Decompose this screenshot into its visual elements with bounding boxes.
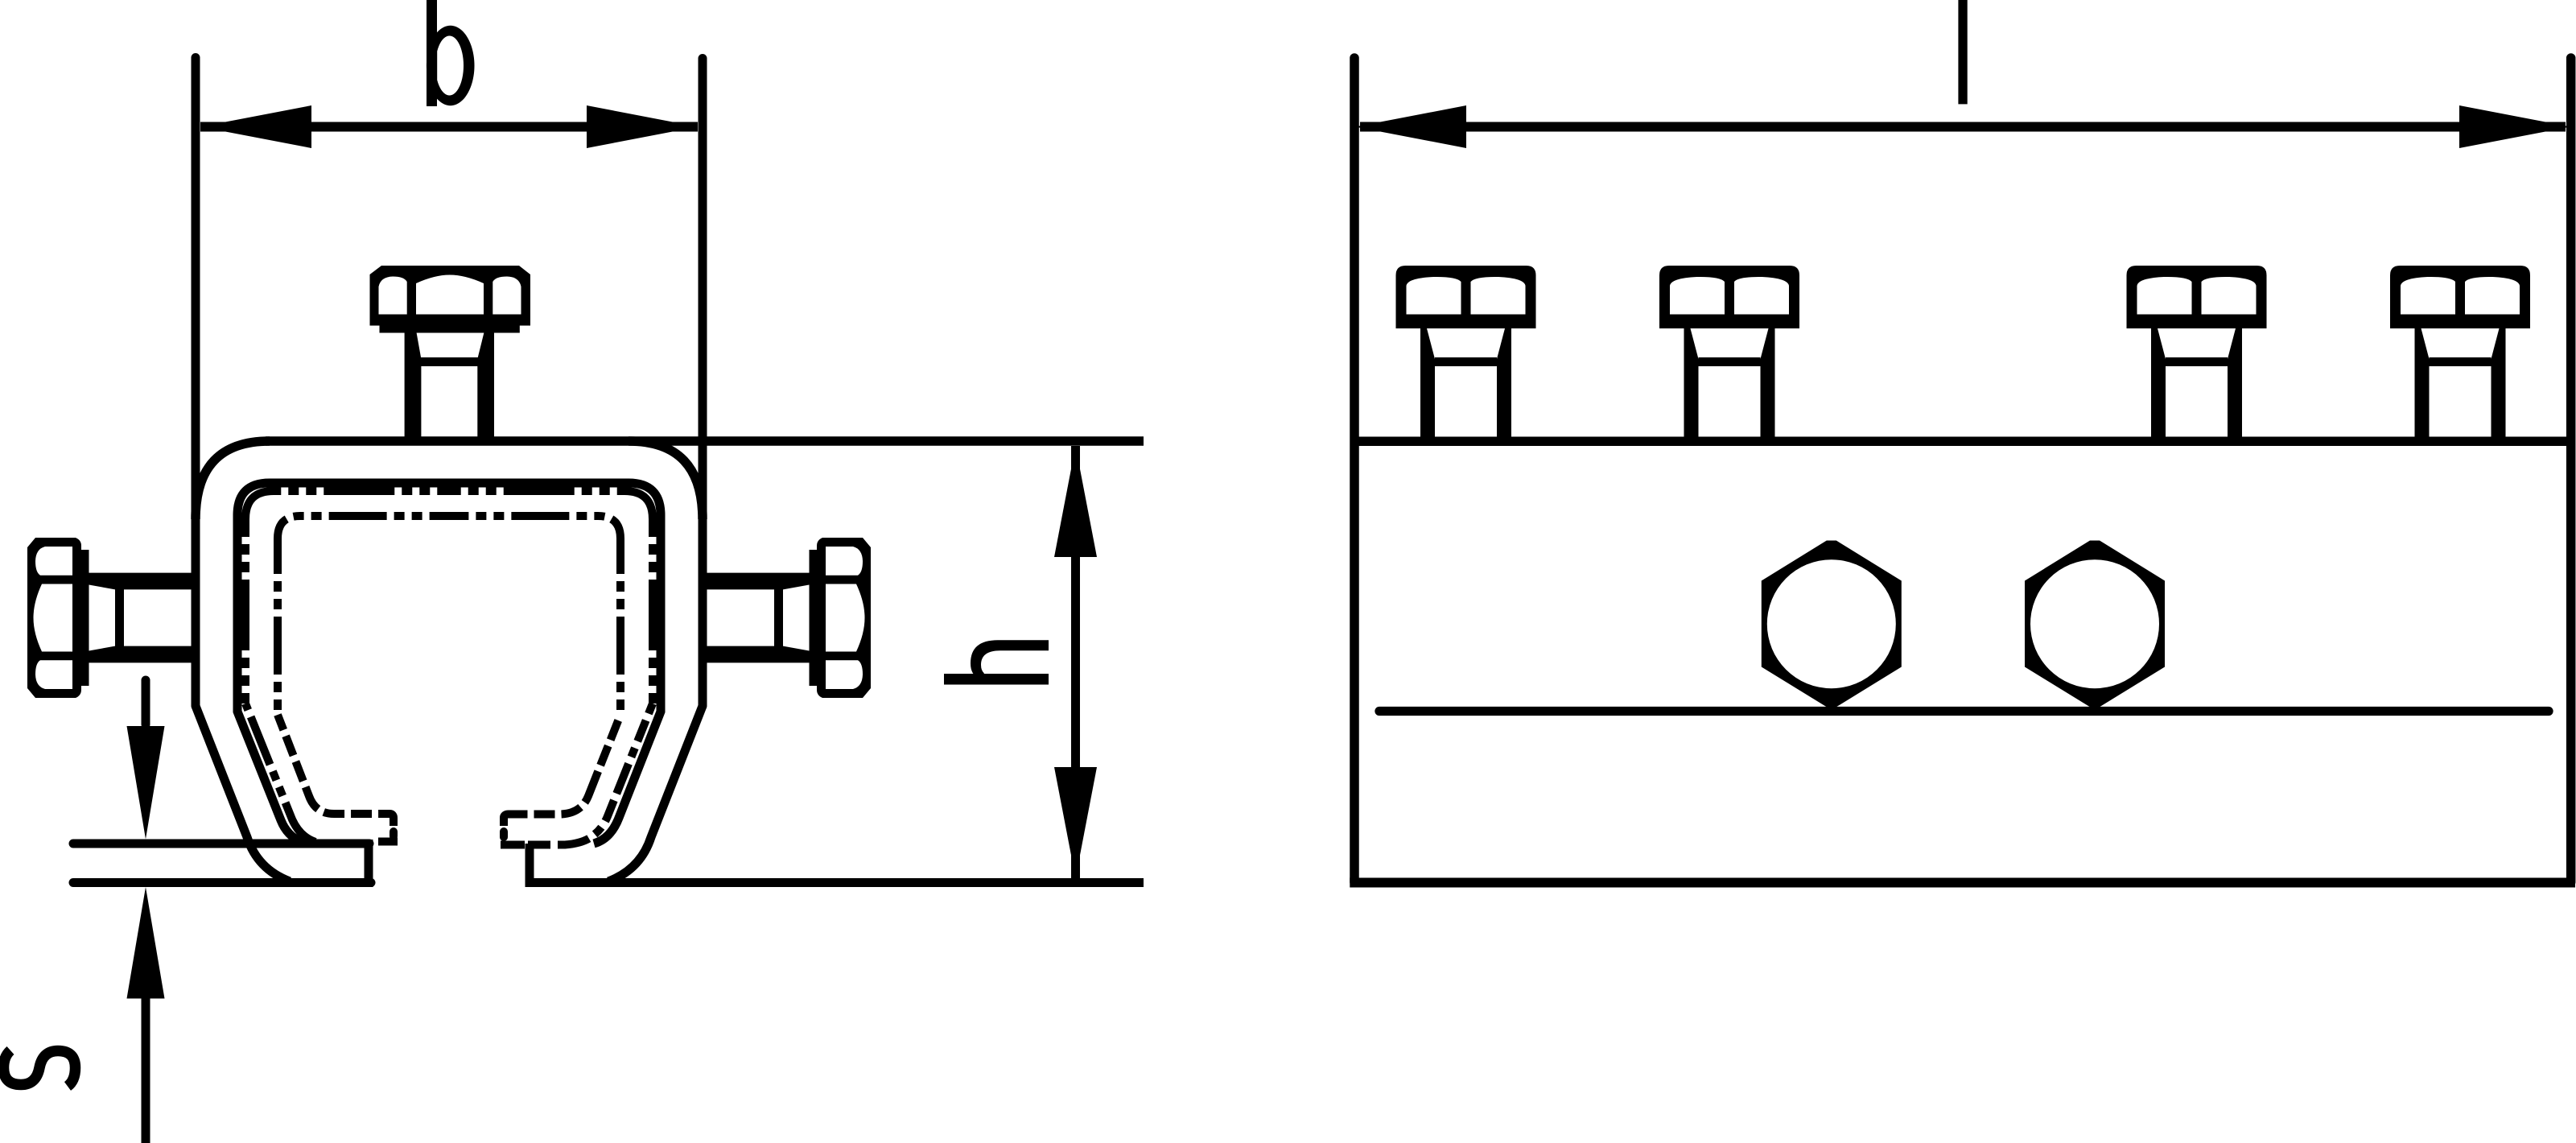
extension line / clamp right edge	[699, 59, 707, 707]
rail bolt 1	[1396, 266, 1536, 446]
rail phantom inner upper-left (dash-dot B)	[278, 516, 455, 715]
rail left lip end	[389, 831, 398, 836]
left foot end edge	[365, 840, 373, 887]
dimension label b	[427, 0, 475, 106]
clamp foot top line + s top extension	[73, 840, 369, 848]
hex bolt head 1	[1762, 541, 1902, 708]
rail right edge	[2566, 58, 2576, 882]
clamp outer left bevel	[196, 706, 290, 881]
rail right lip end	[500, 831, 508, 837]
rail phantom outer upper-left (dash-dot A)	[245, 491, 455, 704]
arrowhead l right	[2459, 105, 2570, 148]
arrowhead h top	[1054, 446, 1097, 557]
right side bolt cross line	[774, 585, 783, 651]
left side bolt head	[27, 538, 81, 698]
rail top line	[1354, 436, 2571, 446]
right side bolt shank bottom line	[703, 646, 810, 663]
rail bolt 4	[2390, 266, 2530, 446]
arrowhead l left	[1355, 105, 1466, 148]
right side bolt head	[817, 538, 871, 698]
rail bottom edge	[1350, 878, 2575, 888]
rail bolt 3	[2127, 266, 2267, 446]
clamp top edge + h top extension line	[266, 436, 1144, 446]
top bolt head facet left	[379, 277, 407, 315]
right foot end edge	[526, 844, 534, 887]
top bolt shank right line	[477, 332, 494, 441]
dimension label h (rotated)	[944, 674, 1049, 685]
left side bolt shank top line	[89, 573, 196, 590]
extension line / clamp left edge	[192, 58, 200, 707]
top bolt head facet middle	[416, 275, 484, 315]
clamp foot bottom line + s bottom extension	[73, 878, 371, 887]
right foot bottom + h bottom extension line	[530, 878, 1144, 887]
top bolt washer	[380, 324, 520, 333]
left side bolt facet top	[35, 547, 72, 576]
rail phantom outer lower-left (dash-dot A)	[245, 704, 315, 842]
left side bolt facet middle	[34, 584, 73, 652]
dimension s upper arrow	[142, 680, 150, 724]
rail bolt 2	[1659, 266, 1799, 446]
left side bolt shank bottom line	[89, 646, 196, 663]
rail phantom inner lower-left (dash-dot B)	[278, 715, 394, 826]
dimension label l	[1958, 0, 1967, 104]
right side bolt shank top line	[703, 573, 810, 590]
top bolt cross line	[417, 357, 484, 366]
hex bolt head 2	[2025, 541, 2165, 708]
rail left edge	[1350, 58, 1359, 882]
clamp outer top-left corner	[196, 441, 270, 519]
clamp inner outline	[237, 483, 661, 844]
dimension label s (rotated)	[4, 1050, 76, 1087]
clamp outer right bevel	[608, 706, 703, 881]
left side bolt facet bottom	[35, 660, 72, 689]
arrowhead b left	[200, 105, 311, 148]
dimension line h	[1071, 446, 1080, 878]
clamp outer top-right corner	[629, 441, 703, 519]
dimension line b	[200, 122, 698, 132]
dimension s lower arrow	[142, 998, 150, 1143]
right side bolt washer	[810, 550, 819, 686]
top bolt head facet right	[493, 277, 521, 315]
top bolt shank left line	[405, 332, 422, 441]
rail phantom inner upper-right (dash-dot B)	[455, 516, 620, 715]
arrowhead b right	[587, 105, 698, 148]
left side bolt cross line	[115, 585, 124, 651]
dimension line l	[1360, 122, 2566, 132]
rail phantom outer lower-right (dash-dot A)	[528, 704, 653, 845]
top bolt head	[370, 266, 531, 326]
arrowhead h bottom	[1054, 767, 1097, 878]
right side bolt facet bottom	[826, 660, 863, 689]
left side bolt washer	[80, 550, 89, 686]
rail phantom outer upper-right (dash-dot A)	[455, 491, 653, 704]
right side bolt facet middle	[826, 584, 865, 652]
rail phantom inner lower-right (dash-dot B)	[504, 715, 620, 826]
rail slot line	[1379, 707, 2549, 716]
right side bolt facet top	[826, 547, 863, 576]
